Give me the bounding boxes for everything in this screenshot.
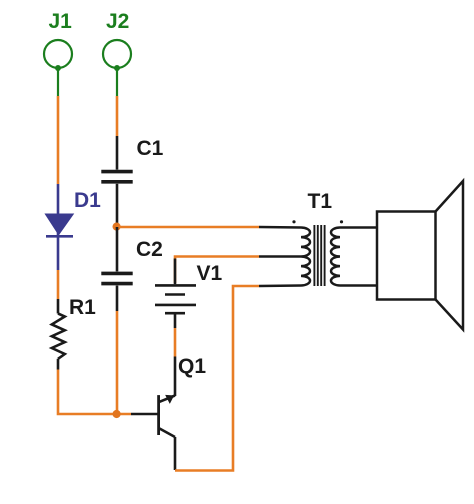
transformer T1 primary leads — [259, 227, 301, 286]
svg-text:J2: J2 — [106, 10, 129, 33]
wire junction to T1 primary top — [117, 226, 259, 229]
node junction C1-C2 — [113, 223, 121, 231]
transformer T1 phase dot primary — [292, 220, 295, 223]
resistor R1 — [52, 299, 65, 370]
wire J1 to D1 — [57, 96, 60, 184]
wire R1 to base node — [58, 370, 131, 415]
svg-text:C2: C2 — [136, 238, 163, 261]
svg-text:Q1: Q1 — [178, 355, 206, 378]
wire Q1 collector to T1 primary bottom — [175, 286, 259, 471]
connector J1 — [44, 40, 72, 96]
svg-text:C1: C1 — [137, 137, 164, 160]
wire V1 top to T1 primary mid — [175, 257, 259, 284]
battery V1 — [155, 259, 196, 329]
svg-text:V1: V1 — [197, 262, 223, 285]
transformer T1 phase dot secondary — [340, 220, 343, 223]
wire V1 to Q1 emitter — [174, 328, 177, 357]
svg-text:D1: D1 — [74, 189, 101, 212]
wire D1 to R1 — [57, 270, 60, 299]
transistor Q1 — [131, 357, 175, 471]
wire C2 to base junction — [116, 311, 119, 413]
capacitor C1 — [101, 136, 132, 225]
svg-text:R1: R1 — [69, 296, 96, 319]
wire J2 to C1 — [116, 96, 119, 136]
speaker LS1 — [377, 181, 463, 330]
connector J2 — [103, 40, 131, 96]
svg-text:T1: T1 — [308, 190, 333, 213]
node base junction — [113, 410, 121, 418]
svg-text:J1: J1 — [49, 10, 73, 33]
transformer T1 secondary leads — [340, 228, 377, 286]
capacitor C2 — [101, 227, 132, 311]
diode D1 — [46, 184, 73, 270]
transformer T1 secondary winding — [331, 228, 340, 286]
transformer T1 primary winding — [301, 228, 310, 286]
transformer T1 core — [314, 225, 324, 286]
